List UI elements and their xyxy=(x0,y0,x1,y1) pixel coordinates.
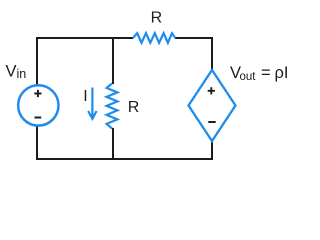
svg-text:ρI: ρI xyxy=(275,64,289,82)
svg-text:out: out xyxy=(240,71,257,83)
resistor R2 (middle, vertical zigzag) xyxy=(107,84,118,129)
wire bottom horizontal xyxy=(36,158,213,160)
svg-text:I: I xyxy=(83,88,87,105)
dependent source plus sign xyxy=(208,87,215,94)
current arrow I (head) xyxy=(88,111,96,119)
wire top-right horizontal xyxy=(175,37,213,39)
dependent source minus sign xyxy=(208,121,215,123)
resistor R1 (top, horizontal zigzag) xyxy=(133,33,175,43)
voltage source plus sign xyxy=(34,90,41,97)
wire right upper xyxy=(211,37,213,70)
wire left lower xyxy=(36,125,38,160)
wire middle lower xyxy=(112,128,114,160)
svg-text:R: R xyxy=(128,99,140,116)
voltage source Vin (circle) xyxy=(18,85,58,125)
dependent source U1 (diamond) xyxy=(189,70,236,141)
current arrow I (shaft) xyxy=(91,88,93,118)
svg-text:R: R xyxy=(151,10,163,27)
svg-text:Vin: Vin xyxy=(6,62,27,81)
voltage source minus sign xyxy=(35,117,42,119)
wire left upper xyxy=(36,37,38,85)
wire middle upper xyxy=(112,37,114,84)
wire right lower xyxy=(211,141,213,160)
wire top-left horizontal xyxy=(37,37,133,39)
svg-text:=: = xyxy=(261,64,271,82)
